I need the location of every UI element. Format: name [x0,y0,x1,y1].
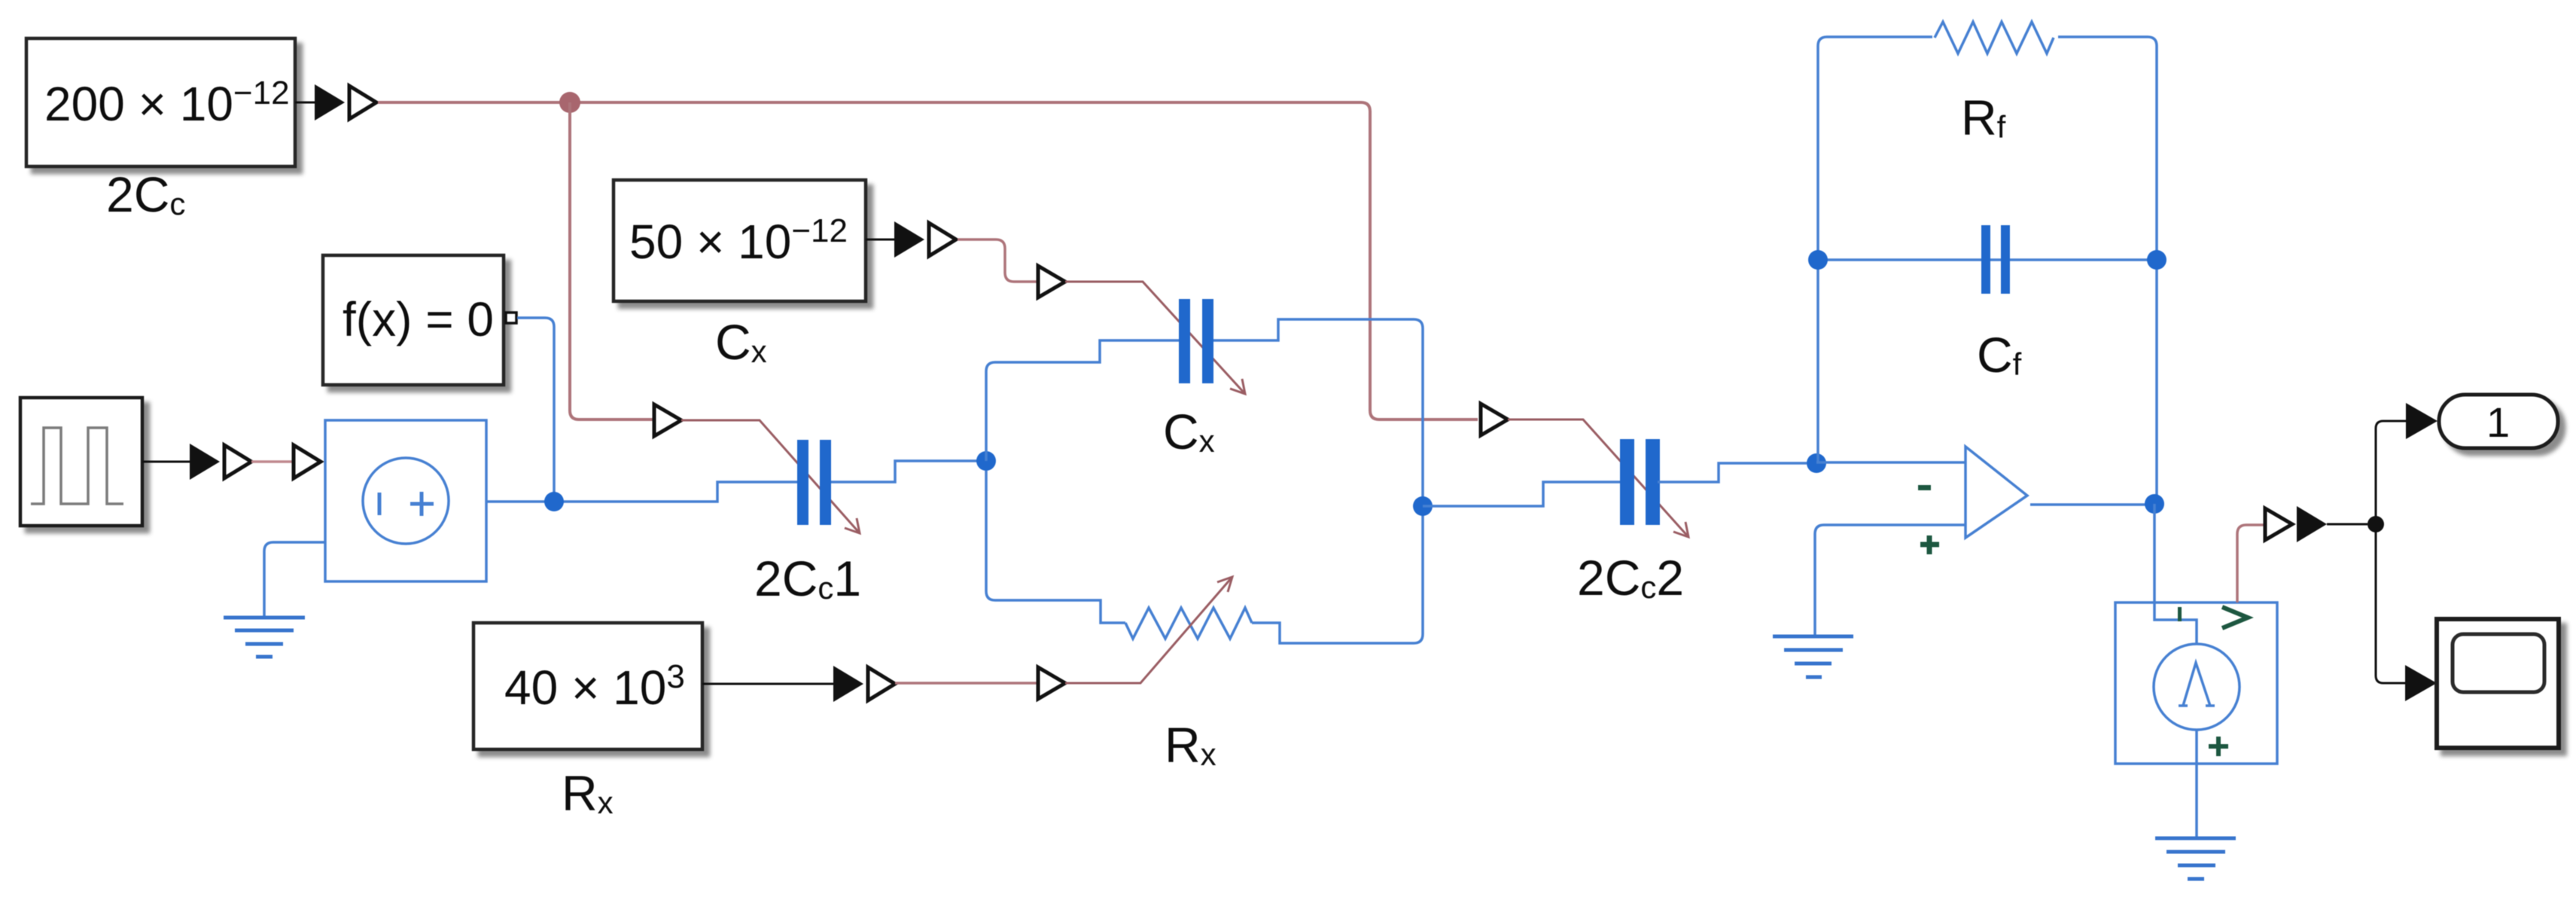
sensor PS output chevron [2222,607,2248,628]
open arrow into 2Cc1 control line [654,404,681,436]
wire junction down to scope [2376,524,2405,683]
wire from pulse to arrows [142,461,190,463]
open arrow into Rx control line [1038,667,1065,699]
wire 2Cc1 right to center node [831,461,977,482]
constant block Cx (50e-12) [614,180,866,301]
scope block [2437,619,2559,748]
node Cf left [1808,250,1828,270]
out port 1 block [2439,395,2558,448]
wire sensor bottom to ground [2195,730,2198,837]
resistor Rf zigzag [1935,22,2054,53]
black wire to output junction [2327,523,2367,526]
open input arrow at voltage source [294,445,321,478]
variable capacitor Cx [1179,299,1213,383]
Cx control line with arrow [1065,282,1245,394]
filled arrow into out port 1 [2406,403,2437,439]
open arrow into 2Cc2 control line [1481,404,1508,435]
node at f(x) junction [544,492,564,511]
svg-text:Cx: Cx [1163,404,1215,459]
svg-text:2Cc: 2Cc [106,166,185,222]
maroon wire from sensor PS port up [2237,525,2265,603]
2Cc1 control line with arrow [681,420,860,533]
node black junction [2367,516,2384,532]
open converter arrow after sensor [2265,508,2292,540]
wire from source right port to 2Cc1 [486,482,797,502]
wire from solver port down to source node [517,318,554,502]
op-amp minus sign [1918,485,1931,490]
2Cc2 control line with arrow [1508,419,1688,537]
Rx control line with arrow [1065,577,1232,683]
wire from 2Cc block to port arrows [295,102,315,104]
filled output arrow of 50e-12 [894,221,924,258]
wire J2 down to Rx resistor [986,471,1125,623]
sensor plus label [2209,737,2228,756]
left feedback rail [1818,37,1932,463]
svg-text:2Cc2: 2Cc2 [1577,550,1684,606]
filled arrow after sensor [2297,506,2327,542]
op-amp plus sign [1920,535,1939,554]
svg-text:Cx: Cx [715,314,767,370]
wire output down into current sensor [2154,504,2197,644]
filled output arrow of pulse [190,444,220,480]
constant block Rx (40e3) [473,623,702,749]
filled output arrow of 40e3 [833,666,863,702]
ground at op-amp plus [1773,636,1853,677]
open converter arrow after 2Cc [349,86,376,119]
short maroon wire into source input arrow [251,460,294,463]
filled output arrow of 2Cc [315,84,345,121]
center node J2 [976,451,996,471]
wire 2Cc2 right to J4 [1658,463,1807,482]
node J4 at op-amp minus rail [1807,453,1826,473]
wire from source bottom-left port to ground [264,542,325,616]
variable capacitor 2Cc2 [1620,439,1660,525]
open arrow into Cx control line [1038,266,1065,297]
open converter arrow after 50e-12 [929,223,956,256]
ground under sensor [2155,838,2236,879]
controlled voltage source block [325,420,486,581]
maroon branch down to 2Cc1 control [570,102,653,419]
svg-text:Rx: Rx [1165,717,1216,773]
solver port square [506,313,516,323]
variable resistor Rx zigzag [1125,608,1252,639]
node J5 output [2145,494,2164,514]
wire op-amp plus input to ground [1815,525,1965,636]
svg-text:40 × 103: 40 × 103 [504,658,685,715]
svg-text:1: 1 [2486,398,2510,446]
svg-text:f(x) = 0: f(x) = 0 [343,292,494,346]
capacitor Cf wire [1818,258,2157,261]
wire J3 to 2Cc2 [1423,482,1620,506]
svg-text:Rf: Rf [1961,90,2006,145]
op-amp U1 triangle [1965,447,2027,538]
wire Rx right up to J3 [1252,506,1423,643]
svg-text:Cf: Cf [1977,327,2022,383]
open converter arrow after 40e3 [868,667,895,700]
constant block 2Cc (200e-12) [26,38,295,166]
maroon wire from 40e3 to Rx control arrow [895,682,1037,685]
node J3 [1413,496,1433,516]
variable capacitor 2Cc1 [797,440,831,525]
filled arrow into scope [2405,665,2437,701]
pulse generator block [20,398,142,526]
wire J4 to op-amp minus input [1816,461,1965,464]
wire J2 up to Cx capacitor [986,340,1179,461]
current sensor block [2115,603,2277,764]
node Cf right [2147,250,2166,270]
svg-text:2Cc1: 2Cc1 [754,551,861,606]
wire from 50e-12 to arrows [866,239,894,241]
svg-text:Rx: Rx [562,765,614,821]
capacitor Cf plates [1981,225,2010,294]
maroon S wire from 50e-12 to Cx control arrow [958,239,1037,282]
wire junction up to out port 1 [2376,421,2406,524]
ground under voltage source [224,618,305,657]
PS wire from 2Cc to 2Cc2 control corner [378,102,1478,419]
node maroon junction [559,92,580,113]
solver block f(x)=0 [323,255,504,385]
wire from 40e3 to arrows [702,683,833,685]
top wire to right rail [2058,37,2157,504]
wire Cx right down to J3 [1213,319,1423,506]
sensor minus label [2178,607,2182,621]
op-amp output wire [2030,503,2154,506]
open converter arrow after pulse [224,445,251,478]
